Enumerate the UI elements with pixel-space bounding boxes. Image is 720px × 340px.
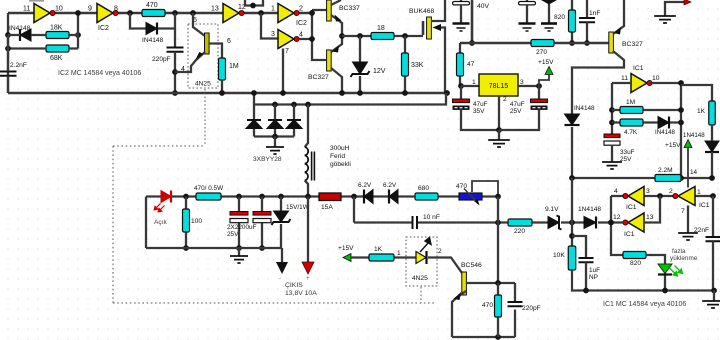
wire x572 down: [571, 178, 573, 246]
node y35 row: [5, 32, 11, 38]
capacitor 2200uF b: [259, 194, 265, 200]
zener 9.1V: [548, 217, 559, 229]
svg-text:1uF: 1uF: [589, 267, 600, 274]
svg-text:1: 1: [271, 6, 275, 13]
driver input bus x312: [299, 10, 327, 60]
ground bottom right: [711, 288, 717, 294]
optocoupler 4N25 no1 box: [188, 24, 218, 88]
svg-text:BC327: BC327: [308, 74, 329, 81]
+40V bus y43: [460, 42, 609, 45]
capacitor 10nF: [413, 216, 418, 229]
optocoupler 4N25 no2 box: [406, 237, 437, 286]
resistor 680: [415, 193, 438, 200]
svg-text:7: 7: [681, 208, 685, 215]
svg-text:BC327: BC327: [622, 41, 643, 48]
node J2: [172, 10, 178, 16]
row y196 wires: [611, 195, 713, 197]
diode 6.2V b: [389, 190, 398, 204]
svg-text:300uH: 300uH: [330, 145, 350, 152]
bottom row y248: [146, 247, 282, 249]
inverter IC2D: [278, 4, 294, 23]
diode 6.2V a: [364, 190, 373, 204]
capacitor input a: [460, 0, 462, 2]
svg-text:1: 1: [697, 189, 701, 196]
diode BYY28 c: [291, 102, 297, 108]
svg-text:13: 13: [211, 6, 219, 13]
node J1: [127, 10, 133, 16]
dashed stub below 4N25 no2: [420, 287, 422, 303]
svg-text:1: 1: [472, 79, 476, 86]
resistor 820 LED: [623, 252, 646, 259]
svg-text:7: 7: [285, 48, 289, 55]
svg-text:12: 12: [613, 214, 621, 221]
inverter IC1 osc: [631, 74, 647, 93]
capacitor 2200uF a: [236, 194, 242, 200]
node emitter junction: [339, 33, 345, 39]
wire left column x8: [7, 13, 9, 93]
capacitor 47uF/25V: [538, 86, 540, 99]
svg-text:IC1 MC 14584 veya 40106: IC1 MC 14584 veya 40106: [603, 301, 686, 308]
node J3: [172, 69, 178, 75]
resistor 10K: [568, 246, 576, 270]
svg-text:2X2200uF: 2X2200uF: [227, 224, 257, 231]
svg-text:1: 1: [397, 250, 401, 257]
capacitor 220pF b: [514, 283, 516, 337]
resistor 1K bottom: [369, 254, 394, 261]
gate drive wire y36: [342, 35, 423, 37]
svg-text:3: 3: [271, 31, 275, 38]
svg-text:4N25: 4N25: [412, 275, 428, 282]
svg-text:IC2: IC2: [296, 20, 307, 27]
output minus arrow: [281, 248, 283, 263]
svg-text:4: 4: [614, 188, 618, 195]
resistor 18K: [46, 32, 69, 39]
svg-text:10: 10: [55, 6, 63, 13]
diode BYY28 b: [272, 102, 278, 108]
capacitor 2.2nF: [0, 72, 17, 76]
node J5: [258, 10, 264, 16]
diode IN4148 osc: [658, 117, 669, 129]
svg-text:220pF: 220pF: [152, 56, 171, 63]
cropped label above U2A: [29, 0, 44, 2]
svg-text:4.7K: 4.7K: [624, 129, 638, 136]
resistor 4.7K: [612, 121, 681, 123]
svg-text:BC337: BC337: [339, 5, 360, 12]
inverter IC2B: [97, 4, 113, 23]
svg-text:10: 10: [652, 75, 660, 82]
svg-text:47: 47: [467, 61, 475, 68]
wire top feed x472: [471, 0, 474, 43]
transistor BC327 Q2: [327, 50, 332, 71]
svg-text:15V/1W: 15V/1W: [286, 204, 310, 211]
svg-text:4: 4: [181, 66, 185, 73]
svg-text:1K: 1K: [374, 246, 383, 253]
inverter IC2C: [223, 4, 239, 23]
svg-text:2.2M: 2.2M: [658, 167, 673, 174]
svg-text:470/ 0.5W: 470/ 0.5W: [194, 185, 224, 192]
resistor 47: [459, 43, 461, 86]
svg-text:11: 11: [23, 6, 30, 13]
IC2 pin7 ground lead: [282, 49, 284, 94]
node fuse out: [351, 194, 357, 200]
node x498 row: [495, 220, 501, 226]
svg-text:820: 820: [554, 14, 565, 21]
sense row y222.5: [354, 197, 611, 223]
svg-text:IN4148: IN4148: [655, 129, 676, 136]
diode IN4148 D2 bypass: [130, 13, 175, 29]
wire main top rail y13: [8, 12, 312, 15]
svg-text:13,8V 10A: 13,8V 10A: [285, 290, 317, 297]
LED emission arrows green: [670, 266, 681, 275]
rail y178: [572, 177, 713, 179]
dashed isolation boundary: [113, 146, 436, 303]
capacitor 22nF: [712, 196, 714, 237]
svg-text:1M: 1M: [229, 63, 239, 70]
node J4: [190, 10, 196, 16]
svg-text:2: 2: [503, 96, 507, 103]
svg-text:IN4148: IN4148: [142, 37, 164, 44]
svg-text:1M: 1M: [626, 99, 635, 106]
LED fazla green: [646, 255, 665, 264]
diode top to ground: [541, 0, 557, 5]
svg-text:4: 4: [299, 32, 303, 39]
transistor BC546 Q4: [462, 272, 467, 295]
78L15 output wire: [518, 85, 539, 87]
svg-text:1nF: 1nF: [589, 10, 600, 17]
svg-text:IC1: IC1: [624, 231, 635, 238]
wire row y35: [8, 34, 78, 36]
fuse 15A: [319, 193, 341, 201]
bottom rail left section y93: [8, 92, 447, 95]
svg-text:18K: 18K: [50, 25, 63, 32]
svg-text:15A: 15A: [321, 204, 333, 211]
resistor 100: [183, 194, 189, 200]
diode 1N4148 row: [584, 217, 596, 229]
wire row y48: [8, 47, 78, 49]
regulator 78L15: [479, 74, 518, 96]
svg-text:+15V: +15V: [665, 142, 681, 149]
inverter IC2A: [34, 4, 50, 23]
svg-text:40V: 40V: [477, 3, 490, 10]
resistor 470/0.5W: [196, 193, 221, 200]
dashed link from 4N25 no1: [204, 89, 206, 146]
diode bottom bus: [254, 135, 294, 137]
4N25 no1 emitter w/ arrow: [175, 52, 205, 72]
svg-text:ÇIKIS: ÇIKIS: [285, 282, 303, 289]
resistor 18: [371, 33, 394, 40]
capacitor 1uF NP: [572, 236, 586, 258]
resistor 220: [508, 219, 532, 226]
svg-text:11: 11: [621, 75, 628, 82]
BC546 emitter: [452, 291, 466, 337]
bottom loop wire: [452, 336, 515, 338]
LED Acik red: [161, 191, 171, 203]
inverter IC1 2-1: [678, 187, 695, 206]
inductor 300uH: [305, 102, 311, 108]
wire right column x78: [77, 13, 79, 49]
svg-text:IC1: IC1: [633, 65, 644, 72]
diode bus: [254, 93, 446, 105]
svg-text:IC1: IC1: [699, 202, 710, 209]
svg-text:13: 13: [646, 214, 654, 221]
potentiometer 470: [459, 193, 482, 200]
inverter IC2E: [278, 30, 294, 49]
svg-text:+15V: +15V: [338, 245, 354, 252]
transistor BC337 Q1: [327, 0, 332, 21]
resistor 470: [142, 10, 165, 17]
ground under diodes: [266, 147, 284, 154]
4N25 no1 base to 1M: [209, 44, 222, 59]
svg-text:33K: 33K: [411, 62, 424, 69]
svg-text:Açık: Açık: [154, 219, 168, 226]
svg-text:6: 6: [227, 38, 231, 45]
MOSFET BUK468 Q3: [422, 21, 425, 35]
svg-text:9.1V: 9.1V: [545, 206, 559, 213]
capacitor 220pF: [167, 48, 184, 52]
svg-text:fazla: fazla: [672, 248, 686, 255]
node source: [444, 90, 450, 96]
diode BYY28 a: [253, 105, 255, 137]
4N25 no1 phototransistor: [193, 13, 205, 36]
svg-text:IN4148: IN4148: [9, 25, 31, 32]
svg-text:BC546: BC546: [461, 262, 482, 269]
diode IN4148 from Q5: [565, 114, 580, 125]
diode IN4148 D1: [20, 29, 31, 41]
svg-text:1K: 1K: [697, 108, 706, 115]
capacitor 1nF: [586, 0, 588, 18]
resistor 1M vertical: [219, 58, 226, 80]
svg-text:1N4148: 1N4148: [578, 206, 601, 213]
resistor 820 top: [571, 0, 573, 43]
svg-text:220: 220: [514, 228, 525, 235]
IC1 pin7 lead: [687, 206, 689, 234]
svg-text:14: 14: [690, 169, 698, 176]
svg-text:820: 820: [630, 260, 641, 267]
resistor 1K right: [709, 101, 716, 125]
svg-text:-: -: [279, 276, 281, 282]
Q5 emitter from top: [613, 0, 624, 34]
svg-text:680: 680: [418, 185, 429, 192]
diode 1N4148 right: [711, 125, 713, 141]
svg-text:NP: NP: [589, 274, 598, 281]
svg-text:25V: 25V: [510, 108, 522, 115]
svg-text:68K: 68K: [50, 55, 63, 62]
svg-text:22nF: 22nF: [694, 227, 709, 234]
svg-text:78L15: 78L15: [489, 83, 509, 90]
4N25 no2 emission arrow: [420, 238, 431, 253]
svg-text:2: 2: [669, 188, 673, 195]
Q5 collector: [572, 51, 624, 114]
node x572 row: [569, 220, 575, 226]
resistor 68K: [46, 45, 69, 52]
ground top right: [665, 2, 684, 16]
svg-text:470: 470: [482, 302, 493, 309]
svg-text:+15V: +15V: [538, 59, 554, 66]
node x611 row: [608, 220, 614, 226]
wire osc to 1K: [681, 85, 712, 101]
svg-text:35V: 35V: [473, 108, 485, 115]
svg-text:6.2V: 6.2V: [383, 182, 397, 189]
svg-text:Ferid: Ferid: [330, 153, 345, 160]
node pot out: [495, 194, 501, 200]
svg-text:+: +: [306, 276, 310, 282]
svg-text:10 nF: 10 nF: [423, 214, 440, 221]
svg-text:1N4148: 1N4148: [683, 132, 705, 139]
78L15 ground: [498, 96, 500, 130]
svg-text:9: 9: [88, 6, 92, 13]
svg-text:3XBYY28: 3XBYY28: [253, 156, 282, 163]
capacitor 33uF: [604, 134, 620, 138]
output plus arrow: [305, 194, 311, 200]
svg-text:göbekli: göbekli: [330, 161, 351, 168]
output rail y196.5: [146, 195, 498, 197]
svg-text:BUK468: BUK468: [409, 8, 435, 15]
left leg x146: [145, 197, 147, 249]
svg-text:2: 2: [438, 248, 442, 255]
svg-text:IC1: IC1: [626, 204, 637, 211]
wire LED to BC546: [428, 258, 462, 274]
stub loop above: [245, 0, 263, 6]
svg-text:10K: 10K: [553, 252, 565, 259]
svg-text:IC2 MC 14584 veya 40106: IC2 MC 14584 veya 40106: [58, 70, 141, 77]
svg-text:3: 3: [646, 188, 650, 195]
capacitor input b: [526, 0, 528, 2]
svg-text:2: 2: [299, 6, 303, 13]
svg-text:25V: 25V: [620, 156, 632, 163]
IC1 pin14 lead: [687, 148, 689, 188]
resistor 33K: [402, 33, 408, 39]
zener 12V: [357, 33, 363, 39]
svg-text:18: 18: [377, 25, 385, 32]
resistor 1M osc: [612, 109, 681, 111]
svg-text:12V: 12V: [373, 68, 386, 75]
svg-text:6.2V: 6.2V: [358, 182, 372, 189]
svg-text:2.2nF: 2.2nF: [10, 62, 27, 69]
node pin1: [458, 83, 464, 89]
svg-text:220pF: 220pF: [522, 305, 541, 312]
osc output column: [650, 83, 681, 178]
ground output: [238, 248, 240, 256]
osc input column: [612, 83, 631, 134]
resistor 2.2M: [655, 175, 681, 182]
svg-text:4N25: 4N25: [195, 81, 211, 88]
svg-text:47uF: 47uF: [473, 101, 488, 108]
svg-text:33uF: 33uF: [620, 149, 635, 156]
feedback wire 13 to node: [644, 196, 660, 223]
BC546 collector: [466, 282, 515, 284]
svg-text:470: 470: [146, 2, 158, 9]
svg-text:100: 100: [191, 218, 202, 225]
capacitor 47uF/35V: [460, 86, 462, 99]
transistor BC327 Q5: [609, 32, 614, 53]
svg-text:47uF: 47uF: [510, 101, 525, 108]
row y222 inverter IC1 12-13: [628, 213, 644, 232]
svg-text:270: 270: [536, 49, 547, 56]
svg-text:IC2: IC2: [98, 25, 109, 32]
svg-text:470: 470: [456, 183, 467, 190]
inverter IC1 4-3: [628, 187, 644, 206]
svg-text:yüklenme: yüklenme: [670, 255, 698, 262]
resistor 270: [531, 40, 554, 47]
svg-text:IN4148: IN4148: [574, 105, 595, 112]
4N25 no2 LED: [416, 252, 426, 264]
resistor 470 vert: [497, 283, 499, 337]
zener 15V/1W: [278, 194, 284, 200]
svg-text:25V: 25V: [227, 231, 239, 238]
svg-text:8: 8: [114, 6, 118, 13]
LED drive column x611: [611, 196, 623, 255]
